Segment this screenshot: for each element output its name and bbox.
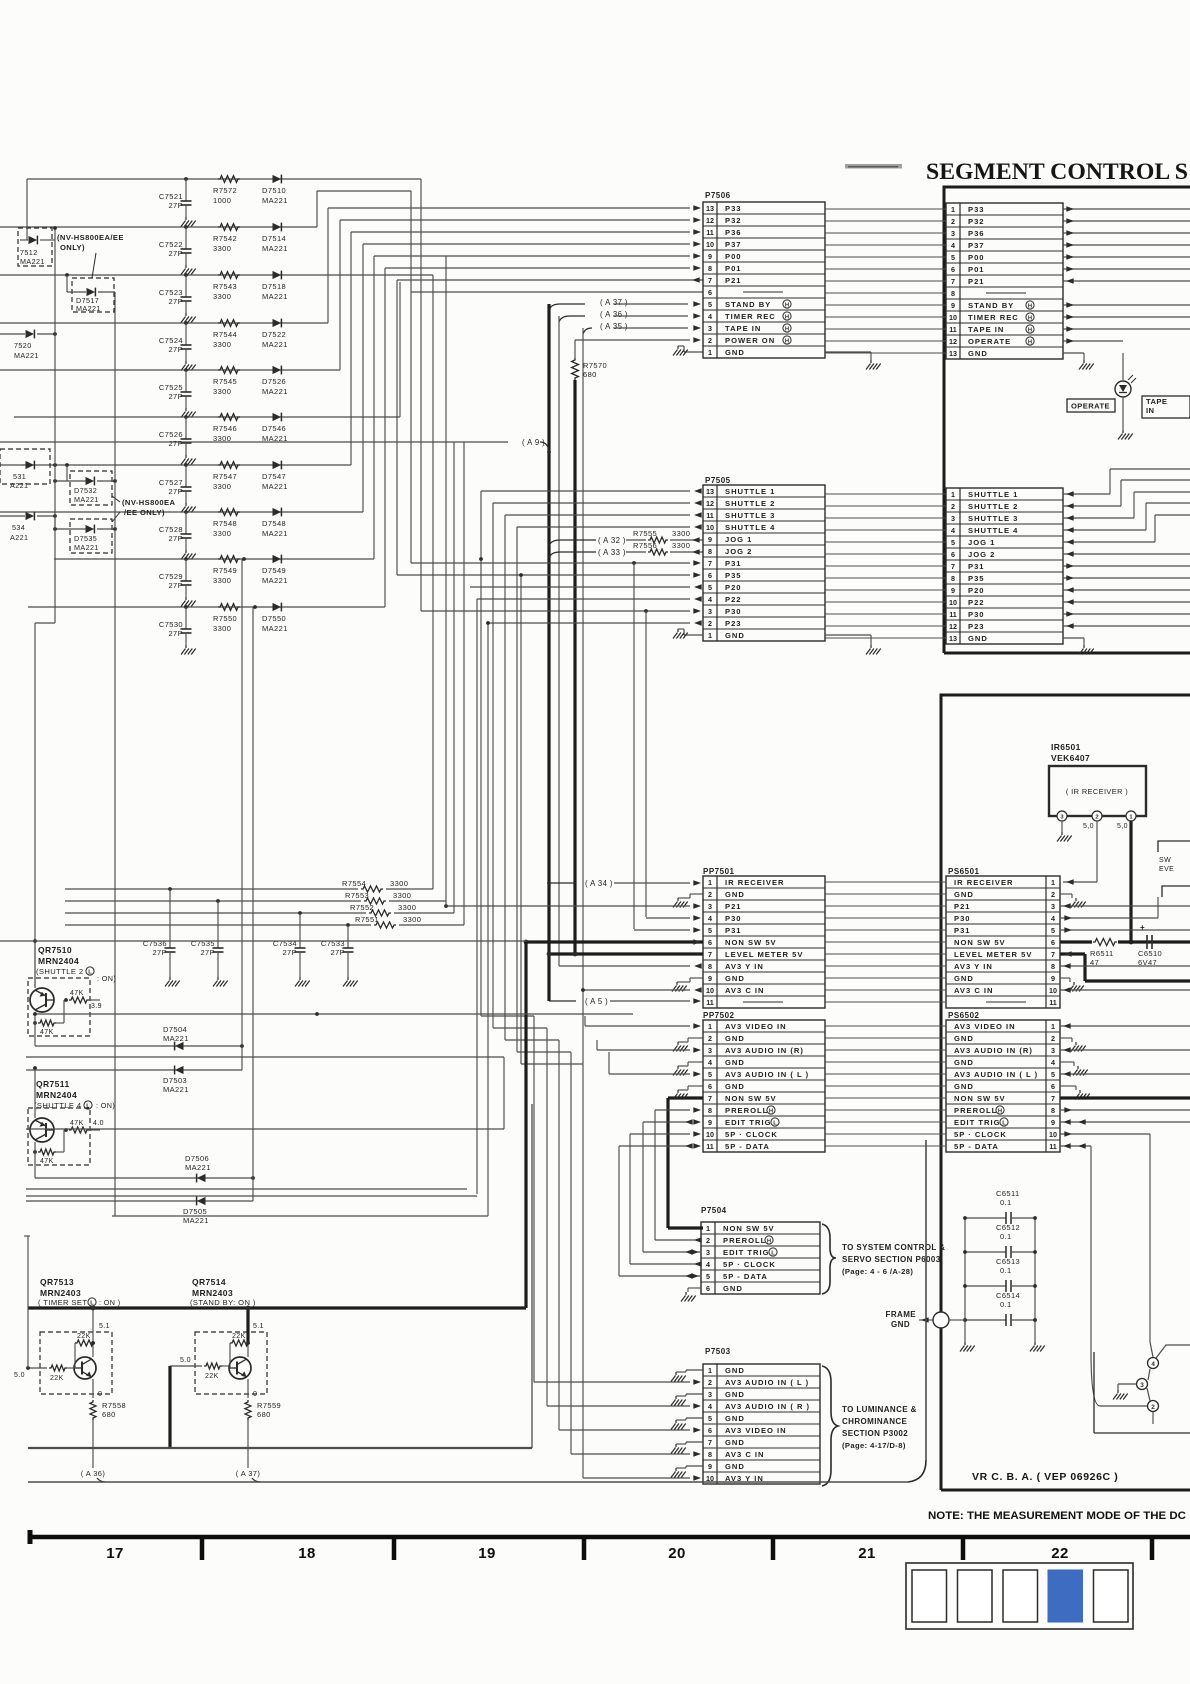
svg-text:R7542: R7542	[213, 234, 237, 243]
resistor R7547	[213, 462, 240, 491]
svg-text:3300: 3300	[213, 482, 231, 491]
svg-text:4.0: 4.0	[93, 1120, 104, 1127]
svg-text:+: +	[1140, 923, 1145, 932]
svg-text:AV3 VIDEO IN: AV3 VIDEO IN	[954, 1022, 1016, 1031]
svg-text:5.0: 5.0	[14, 1372, 25, 1379]
svg-text:AV3 Y IN: AV3 Y IN	[954, 962, 993, 971]
wire QR7514 collector thick	[246, 1306, 264, 1357]
svg-text:AV3 C IN: AV3 C IN	[954, 986, 994, 995]
wire P7505 pin3 line	[421, 608, 701, 614]
svg-text:3: 3	[708, 902, 712, 911]
svg-text:A221: A221	[10, 481, 28, 490]
net (A37)	[549, 298, 701, 310]
svg-text:R7544: R7544	[213, 330, 237, 339]
svg-text:3: 3	[706, 1248, 710, 1257]
brace P7504	[822, 1224, 836, 1294]
svg-text:5P - DATA: 5P - DATA	[954, 1142, 999, 1151]
wire P7505 pin7 line	[411, 560, 701, 566]
svg-text:GND: GND	[725, 974, 745, 983]
wire R7553 to PP7501 pin3	[444, 903, 701, 909]
svg-text:R7550: R7550	[213, 614, 237, 623]
svg-text:C7521: C7521	[159, 192, 183, 201]
svg-text:4: 4	[1051, 1058, 1055, 1067]
svg-text:D7549: D7549	[262, 566, 286, 575]
svg-text:D7547: D7547	[262, 472, 286, 481]
svg-text:4: 4	[708, 914, 712, 923]
title SEGMENT CONTROL	[926, 159, 1188, 185]
svg-text:AV3 C IN: AV3 C IN	[725, 1450, 765, 1459]
svg-text:JOG 1: JOG 1	[968, 538, 995, 547]
svg-text:3: 3	[708, 1390, 712, 1399]
svg-text:MA221: MA221	[163, 1034, 189, 1043]
svg-text:47K: 47K	[40, 1158, 54, 1165]
wire P7505 GND	[825, 635, 871, 645]
ground PP7501 pin2	[673, 898, 688, 908]
ground C7534	[295, 977, 310, 987]
indicator box OPERATE	[1067, 399, 1115, 412]
svg-text:P31: P31	[725, 926, 742, 935]
wire switch 2 down	[1091, 1352, 1153, 1424]
wire PP7502 pin3	[597, 1040, 701, 1053]
svg-text:3300: 3300	[213, 576, 231, 585]
node row 4 cap junction	[184, 321, 188, 325]
ground C7533	[343, 977, 358, 987]
svg-text:PS6501: PS6501	[948, 867, 980, 876]
svg-text:: ON): : ON)	[97, 974, 116, 983]
svg-text:13: 13	[949, 634, 957, 643]
svg-text:R7545: R7545	[213, 377, 237, 386]
wire LEVEL METER thick to PP7501 pin7	[547, 952, 703, 957]
ground below C7525	[181, 408, 196, 418]
wire bus y889 with R7554	[65, 879, 433, 892]
net (A37) bottom	[236, 1469, 261, 1482]
wire PP7502 pin9 to P7504 pin3	[643, 1119, 701, 1255]
wire bus y1057	[26, 1056, 504, 1058]
svg-text:GND: GND	[954, 890, 974, 899]
svg-text:5P - DATA: 5P - DATA	[725, 1142, 770, 1151]
svg-text:5: 5	[1051, 926, 1055, 935]
wire QR7513 emitter tail	[92, 1420, 94, 1468]
wire switch 4 up	[1156, 1345, 1190, 1358]
wire PS6502 pin1	[1060, 1023, 1190, 1029]
svg-text:MA221: MA221	[262, 387, 288, 396]
zone square 3	[1003, 1570, 1038, 1622]
resistor 47K base QR7511	[64, 1120, 104, 1133]
svg-text:4: 4	[708, 1402, 712, 1411]
svg-text:(STAND BY: ON ): (STAND BY: ON )	[190, 1298, 256, 1307]
svg-text:GND: GND	[968, 349, 988, 358]
svg-text:P00: P00	[968, 253, 985, 262]
svg-text:27P: 27P	[168, 439, 183, 448]
wire PP7502 pin2 gnd	[678, 1038, 703, 1042]
label TO SYSTEM CONTROL	[842, 1243, 945, 1276]
svg-text:L: L	[88, 969, 92, 975]
svg-text:D7532: D7532	[74, 486, 97, 495]
svg-text:SHUTTLE 3: SHUTTLE 3	[968, 514, 1018, 523]
svg-text:JOG 2: JOG 2	[968, 550, 995, 559]
wire left vertical x28 lower	[24, 1236, 30, 1368]
wire P7505 pin12 chain	[493, 500, 702, 1406]
svg-text:( TIMER SET: ( TIMER SET	[38, 1298, 87, 1307]
diode D7514	[262, 223, 288, 253]
wire PP7502 pin4 gnd	[678, 1062, 703, 1066]
svg-text:P30: P30	[725, 914, 742, 923]
dashed box QR7514	[195, 1332, 267, 1394]
svg-text:11: 11	[949, 610, 957, 619]
svg-text:11: 11	[949, 325, 957, 334]
dashed box QR7513	[40, 1332, 112, 1394]
svg-text:11: 11	[1049, 1142, 1057, 1151]
svg-text:C6512: C6512	[996, 1223, 1020, 1232]
svg-text:8: 8	[1051, 1106, 1055, 1115]
diode D7522	[262, 319, 288, 349]
ground C7536	[165, 977, 180, 987]
wire to P7503 pin6	[559, 1427, 701, 1433]
wire QR7511 collector	[34, 1142, 36, 1178]
resistor 47K lower QR7510	[33, 1000, 64, 1036]
svg-text:R7554: R7554	[342, 879, 366, 888]
diode D7526	[262, 366, 288, 396]
svg-text:5P · CLOCK: 5P · CLOCK	[954, 1130, 1007, 1139]
wire bus y1129	[26, 1128, 504, 1130]
svg-text:C6514: C6514	[996, 1291, 1020, 1300]
wire bus y1196	[26, 1195, 477, 1197]
svg-text:3300: 3300	[213, 387, 231, 396]
diode D7512 (dashed option)	[18, 228, 55, 266]
wire vert D7504 feed	[241, 559, 243, 1070]
wire left vertical x115	[114, 292, 116, 1216]
svg-text:H: H	[785, 338, 789, 344]
svg-text:P22: P22	[968, 598, 985, 607]
svg-text:NON SW 5V: NON SW 5V	[725, 1094, 777, 1103]
ruler tick 3	[582, 1537, 587, 1560]
svg-text:P36: P36	[725, 228, 742, 237]
svg-text:H: H	[769, 1108, 773, 1114]
svg-text:6: 6	[951, 265, 955, 274]
svg-text:11: 11	[706, 511, 714, 520]
svg-text:STAND BY: STAND BY	[968, 301, 1014, 310]
svg-text:( A 34 ): ( A 34 )	[585, 879, 613, 888]
svg-text:5,0: 5,0	[1083, 823, 1094, 830]
svg-text:C7525: C7525	[159, 383, 183, 392]
node row 1 cap junction	[184, 177, 188, 181]
svg-text:( A 35 ): ( A 35 )	[600, 322, 628, 331]
wire PS6502 pin11	[1060, 1143, 1091, 1352]
svg-text:27P: 27P	[168, 629, 183, 638]
svg-text:27P: 27P	[282, 948, 297, 957]
svg-text:L: L	[771, 1250, 775, 1256]
wires block B outputs	[1063, 551, 1190, 629]
transistor QR7510	[30, 945, 116, 1012]
svg-text:TIMER REC: TIMER REC	[968, 313, 1019, 322]
svg-text:C7524: C7524	[159, 336, 183, 345]
svg-text:GND: GND	[891, 1320, 910, 1329]
svg-text:P20: P20	[968, 586, 985, 595]
node row 9 cap junction	[184, 557, 188, 561]
svg-text:PREROLL: PREROLL	[723, 1236, 766, 1245]
svg-text:5: 5	[1051, 1070, 1055, 1079]
svg-text:MA221: MA221	[185, 1163, 211, 1172]
zone indicator box	[906, 1563, 1133, 1629]
wire P7503 pin7 gnd stub	[676, 1442, 703, 1444]
svg-text:4: 4	[708, 312, 712, 321]
wire PS6502 pin4 gnd	[1060, 1062, 1074, 1066]
ruler number 21	[858, 1545, 876, 1562]
svg-text:19: 19	[478, 1545, 496, 1562]
diode D7547	[262, 461, 288, 491]
svg-text:QR7510: QR7510	[38, 945, 72, 955]
svg-text:P30: P30	[954, 914, 971, 923]
svg-text:3.9: 3.9	[91, 1003, 102, 1010]
svg-text:8: 8	[708, 1450, 712, 1459]
svg-text:9: 9	[708, 1462, 712, 1471]
resistor 47K lower QR7511	[33, 1130, 64, 1165]
svg-text:4: 4	[951, 526, 955, 535]
svg-text:5: 5	[951, 538, 955, 547]
svg-text:R7552: R7552	[350, 903, 374, 912]
svg-text:6: 6	[1051, 1082, 1055, 1091]
ground P7504 pin6	[681, 1292, 696, 1302]
label 5.0 pin2	[1083, 823, 1094, 830]
svg-text:7: 7	[708, 559, 712, 568]
svg-text:GND: GND	[725, 1390, 745, 1399]
svg-text:QR7513: QR7513	[40, 1277, 74, 1287]
svg-text:MRN2404: MRN2404	[36, 1090, 77, 1100]
svg-text:27P: 27P	[152, 948, 167, 957]
ground below LED	[1118, 430, 1133, 440]
diode D7505	[26, 1197, 253, 1225]
resistor R6511	[1090, 939, 1117, 968]
svg-text:7: 7	[1051, 950, 1055, 959]
net (A36)	[559, 310, 701, 322]
wire thick PP7502 pin7 to P7504 pin1	[668, 1098, 703, 1228]
wire left vertical x27	[26, 179, 28, 240]
svg-text:7: 7	[1051, 1094, 1055, 1103]
svg-text:( A 33 ): ( A 33 )	[598, 548, 626, 557]
svg-text:H: H	[785, 314, 789, 320]
capacitor C7533	[321, 923, 354, 977]
ground P7503 pin3	[671, 1396, 686, 1406]
svg-text:EDIT TRIG: EDIT TRIG	[954, 1118, 1001, 1127]
wire bus y925 with R7551	[65, 915, 464, 928]
wire PS6501 pin5	[1060, 927, 1190, 933]
svg-text:R7547: R7547	[213, 472, 237, 481]
svg-text:P7503: P7503	[705, 1347, 731, 1356]
svg-text:3300: 3300	[213, 340, 231, 349]
ruler number 20	[668, 1545, 686, 1562]
diode D7535 (dashed option)	[53, 516, 117, 553]
svg-text:ONLY): ONLY)	[60, 243, 85, 252]
svg-text:C7528: C7528	[159, 525, 183, 534]
wire P7504 pin6 gnd	[688, 1288, 701, 1292]
svg-text:P01: P01	[725, 264, 742, 273]
capacitor C6514	[963, 1291, 1037, 1326]
resistor 22K top QR7513	[75, 1333, 95, 1368]
svg-text:4: 4	[951, 241, 955, 250]
svg-text:10: 10	[706, 986, 714, 995]
svg-text:MRN2403: MRN2403	[192, 1288, 233, 1298]
connector P7506	[703, 191, 825, 358]
svg-text:47K: 47K	[70, 1120, 84, 1127]
svg-text:SW: SW	[1159, 857, 1171, 864]
svg-text:MA221: MA221	[76, 304, 101, 313]
label NV-HS800EA/EE ONLY (bottom)	[112, 496, 175, 522]
svg-text:11: 11	[706, 998, 714, 1007]
svg-text:8: 8	[708, 547, 712, 556]
svg-text:22K: 22K	[50, 1375, 64, 1382]
wire PP7501 pin4 feed	[645, 611, 647, 917]
wire vert D7506-D7505 feed	[252, 607, 254, 1201]
capacitor C7530	[159, 607, 192, 645]
wire bus x559	[558, 316, 560, 966]
ruler baseline	[28, 1530, 1190, 1544]
svg-text:: ON): : ON)	[96, 1101, 115, 1110]
wire block A GND	[1063, 353, 1084, 360]
net (A32) with resistor R7555	[549, 529, 703, 546]
net (A35)	[583, 322, 701, 334]
svg-text:10: 10	[1049, 986, 1057, 995]
svg-text:D7505: D7505	[183, 1207, 207, 1216]
svg-text:D7546: D7546	[262, 424, 286, 433]
svg-text:1: 1	[708, 631, 712, 640]
svg-text:10: 10	[706, 240, 714, 249]
svg-text:D7522: D7522	[262, 330, 286, 339]
svg-text:2: 2	[1051, 1034, 1055, 1043]
svg-text:9: 9	[708, 1118, 712, 1127]
capacitor C7534	[273, 911, 306, 977]
ground cap rail left	[960, 1342, 975, 1352]
svg-text:P32: P32	[968, 217, 985, 226]
wire QR7511 emitter	[33, 1066, 37, 1118]
wire OPERATE to LED	[1122, 353, 1124, 380]
svg-text:2: 2	[1151, 1404, 1155, 1411]
wire P7503 pin9 gnd stub	[676, 1466, 703, 1468]
ground below C7530	[181, 645, 196, 655]
resistor 47K base QR7510	[64, 990, 102, 1010]
svg-text:JOG 1: JOG 1	[725, 535, 752, 544]
svg-text:PP7502: PP7502	[703, 1011, 735, 1020]
svg-text:H: H	[785, 326, 789, 332]
svg-text:GND: GND	[725, 348, 745, 357]
svg-text:H: H	[767, 1238, 771, 1244]
svg-text:5: 5	[708, 926, 712, 935]
ground P7503 pin1	[671, 1372, 686, 1382]
connector PP7502	[703, 1011, 825, 1152]
svg-text:531: 531	[13, 472, 26, 481]
svg-text:D7506: D7506	[185, 1154, 209, 1163]
svg-text:( A 37): ( A 37)	[236, 1469, 261, 1478]
svg-text:C6510: C6510	[1138, 949, 1162, 958]
ground below C7523	[181, 313, 196, 323]
svg-text:12: 12	[949, 622, 957, 631]
svg-text:(Page: 4 - 6 /A-28): (Page: 4 - 6 /A-28)	[842, 1267, 913, 1276]
svg-text:C7523: C7523	[159, 288, 183, 297]
ground cap rail right	[1030, 1342, 1045, 1352]
wire bus y913 with R7552	[65, 903, 454, 916]
svg-text:R7549: R7549	[213, 566, 237, 575]
svg-text:C7535: C7535	[191, 939, 215, 948]
svg-text:2: 2	[951, 217, 955, 226]
svg-text:CHROMINANCE: CHROMINANCE	[842, 1417, 908, 1426]
resistor R7550	[213, 604, 240, 633]
resistor R7543	[213, 272, 240, 301]
wire left vertical jog to x35	[35, 623, 55, 987]
wire P7503 pin3 gnd stub	[676, 1394, 703, 1396]
wire P7506 pin1 GND left	[678, 346, 703, 352]
svg-text:PREROLL: PREROLL	[725, 1106, 768, 1115]
diode D7548	[262, 508, 288, 538]
wire PP7502 pin8 to P7504 pin2	[655, 1107, 702, 1243]
wire row 10	[28, 606, 385, 608]
svg-text:9: 9	[951, 301, 955, 310]
svg-text:12: 12	[706, 216, 714, 225]
svg-text:P35: P35	[968, 574, 985, 583]
ground below C7528	[181, 550, 196, 560]
svg-text:MRN2403: MRN2403	[40, 1288, 81, 1298]
svg-text:0: 0	[98, 1391, 102, 1398]
wire PP7501 pin9 gnd stub	[677, 978, 703, 982]
svg-text:P7505: P7505	[705, 476, 731, 485]
resistor 22K top QR7514	[230, 1333, 250, 1368]
zone square 5	[1094, 1570, 1129, 1622]
svg-text:534: 534	[12, 523, 25, 532]
svg-text:6: 6	[951, 550, 955, 559]
svg-text:3300: 3300	[393, 891, 411, 900]
wire bus y901 with R7553	[65, 891, 446, 906]
svg-text:P31: P31	[968, 562, 985, 571]
svg-text:10: 10	[706, 523, 714, 532]
ground P7506 pin1 left	[673, 346, 688, 356]
svg-text:8: 8	[951, 289, 955, 298]
ground P7506 GND	[866, 360, 881, 370]
svg-text:C6511: C6511	[996, 1189, 1020, 1198]
svg-text:3300: 3300	[213, 624, 231, 633]
wire PP7502 pin10 to P7504 pin4	[630, 1131, 702, 1267]
svg-text:5P - DATA: 5P - DATA	[723, 1272, 768, 1281]
svg-text:H: H	[1028, 327, 1032, 333]
svg-text:C7530: C7530	[159, 620, 183, 629]
dashed box QR7511	[28, 1108, 90, 1165]
svg-text:5: 5	[708, 583, 712, 592]
dashed box QR7510	[28, 978, 90, 1036]
svg-text:MA221: MA221	[14, 351, 39, 360]
diode D7518	[262, 271, 288, 301]
svg-text:C7533: C7533	[321, 939, 345, 948]
svg-text:GND: GND	[725, 1414, 745, 1423]
svg-text:4: 4	[708, 1058, 712, 1067]
svg-text:22K: 22K	[232, 1333, 246, 1340]
svg-text:H: H	[1028, 315, 1032, 321]
svg-text:5: 5	[706, 1272, 710, 1281]
resistor R7559	[245, 1400, 281, 1420]
svg-text:6: 6	[708, 938, 712, 947]
connector PS6501 (on VR CBA)	[946, 867, 1060, 1008]
diode D7510	[262, 175, 288, 205]
svg-text:10: 10	[949, 598, 957, 607]
svg-text:MA221: MA221	[74, 543, 99, 552]
svg-text:GND: GND	[725, 1438, 745, 1447]
svg-text:P20: P20	[725, 583, 742, 592]
node D7504 feed	[242, 557, 246, 561]
svg-text:11: 11	[706, 228, 714, 237]
svg-text:1000: 1000	[213, 196, 231, 205]
transistor QR7514 labels	[190, 1277, 256, 1307]
svg-text:8: 8	[708, 264, 712, 273]
wire left vertical x55	[53, 226, 57, 623]
svg-text:P30: P30	[968, 610, 985, 619]
wire row 5	[0, 369, 340, 371]
ruler number 17	[106, 1545, 124, 1562]
